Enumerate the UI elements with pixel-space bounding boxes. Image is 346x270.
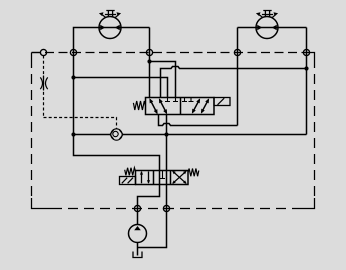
junction dot (73.5,134.5) bbox=[71, 132, 75, 136]
node B (pilot tap on x=149.5) bbox=[146, 49, 152, 55]
wire: shuttle line y=134.5 bbox=[74, 134, 307, 136]
wire: restrictor branch fine-dashed x=43.5 bbox=[43, 56, 45, 118]
wire: feed line y=77.5 to valve port x=167.5 bbox=[74, 78, 168, 99]
valve V2 solenoid box bbox=[120, 177, 136, 185]
motor rotation arrows bbox=[260, 15, 275, 18]
valve V1 position divider bbox=[180, 98, 182, 115]
junction dot (166.5,134.5) bbox=[164, 132, 168, 136]
valve V1 pilot actuator box bbox=[214, 98, 230, 106]
node D (pilot tap on x=306.5) bbox=[303, 49, 309, 55]
pump P1 flow triangle bbox=[134, 226, 141, 230]
valve V1 right box flow arrows bbox=[193, 100, 209, 113]
motor circle bbox=[256, 17, 278, 39]
shuttle valve seat chevrons bbox=[110, 130, 123, 140]
valve V1 pilot slash bbox=[218, 98, 225, 105]
wire: left motor loop to lower valve and pump bbox=[74, 28, 160, 226]
junction dot (306.5,68.5) bbox=[304, 66, 308, 70]
valve V2 centre box blocked port bbox=[160, 171, 165, 179]
valve V2 left box arrows (parallel) bbox=[142, 172, 149, 184]
valve V2 right spring bbox=[188, 169, 199, 177]
shuttle valve outer seat bbox=[111, 129, 122, 140]
node A2 (pilot tap on x=73.5) bbox=[70, 49, 76, 55]
motor shaft bbox=[262, 11, 273, 17]
valve V1 left box flow arrows bbox=[150, 100, 167, 114]
wire: valve bottom port to pump return x=166.5 bbox=[138, 114, 167, 248]
wire: right pilot corners bbox=[298, 53, 315, 209]
wire: rail solid lead-in bbox=[32, 52, 41, 54]
motor flow triangles bbox=[100, 25, 120, 31]
node C (pilot tap on x=237.5) bbox=[234, 49, 240, 55]
node A (pilot tap left) bbox=[40, 49, 46, 55]
wire: right pilot dashed vertical x=314.5 bbox=[314, 58, 316, 198]
wire: fine-dashed y=117.5 to shuttle drop bbox=[44, 118, 117, 130]
pump P1 circle bbox=[129, 225, 147, 243]
wire: pilot rail y=52.5 dashed bbox=[32, 52, 307, 54]
valve V1 left box blocked ports bbox=[165, 98, 178, 102]
junction dot (73.5,77.5) bbox=[71, 75, 75, 79]
wire: right motor right port down x=306.5 bbox=[306, 28, 308, 135]
flushing valve V1 body bbox=[146, 98, 215, 115]
node E (drain tap on pump line) bbox=[134, 205, 140, 211]
valve V1 spring bbox=[133, 101, 145, 110]
wire: left drain corners bbox=[32, 53, 53, 209]
valve V1 right box blocked ports bbox=[182, 98, 194, 102]
valve V2 dividers bbox=[154, 171, 171, 185]
wire: left drain dashed vertical x=31.5 bbox=[31, 58, 33, 198]
valve V2 solenoid slashes bbox=[122, 178, 133, 184]
shuttle valve ball bbox=[113, 131, 118, 136]
valve V2 right box crossed arrows bbox=[173, 171, 186, 183]
motor rotation arrows bbox=[103, 15, 118, 18]
wire: pump to tank bbox=[137, 243, 139, 256]
wire: right motor left port down x=237.5 bbox=[238, 28, 307, 126]
motor shaft bbox=[105, 11, 116, 17]
motor flow triangles bbox=[257, 25, 277, 31]
wire: left motor right port down x=149.5 bbox=[149, 28, 151, 99]
wire: y=68.5 line with bridge hop over x=175.5 bbox=[161, 67, 307, 99]
junction dot (149.5,61.5) bbox=[147, 59, 151, 63]
directional valve V2 body bbox=[136, 171, 189, 185]
motor circle bbox=[99, 17, 121, 39]
wire: branch y=61.5 to valve port x=175.5 bbox=[150, 62, 176, 99]
wire: bottom drain dashed y=208.5 bbox=[52, 208, 298, 210]
node F (drain tap on return line) bbox=[163, 205, 169, 211]
wire: y=125.5 with bridge hop over x=166.5 bbox=[159, 114, 238, 126]
wire: solid segment through restrictor bbox=[43, 76, 45, 91]
valve V2 left spring bbox=[125, 168, 136, 176]
tank symbol bbox=[133, 252, 142, 258]
orifice restrictor on pilot branch bbox=[40, 77, 47, 89]
